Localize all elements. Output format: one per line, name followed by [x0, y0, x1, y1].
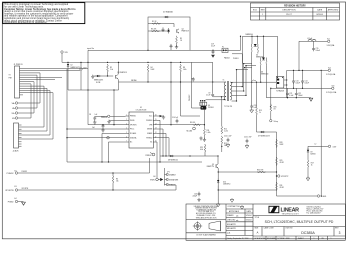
svg-text:REVISION HISTORY: REVISION HISTORY — [284, 5, 306, 7]
svg-text:16: 16 — [155, 115, 157, 117]
svg-text:MBRS140T3: MBRS140T3 — [94, 80, 103, 82]
svg-text:A: A — [257, 231, 259, 235]
svg-text:Fax: (408) 434-0507: Fax: (408) 434-0507 — [307, 212, 321, 214]
svg-text:10: 10 — [155, 141, 157, 143]
svg-text:100uF: 100uF — [316, 50, 321, 52]
svg-text:2.21k: 2.21k — [224, 131, 228, 133]
svg-text:D10: D10 — [223, 182, 226, 184]
svg-text:SHDN: SHDN — [150, 180, 155, 182]
svg-text:CONTRACT NO.: CONTRACT NO. — [228, 205, 241, 208]
svg-text:VA+: VA+ — [12, 102, 15, 105]
svg-text:C21: C21 — [289, 93, 292, 95]
svg-text:DISABLE: DISABLE — [169, 174, 176, 177]
svg-text:Phone: (408) 432-1900: Phone: (408) 432-1900 — [307, 210, 323, 212]
svg-text:DATE: DATE — [317, 9, 323, 12]
svg-text:SCALE NONE: SCALE NONE — [255, 237, 267, 240]
svg-text:VB+: VB+ — [12, 113, 15, 115]
svg-text:1K: 1K — [180, 40, 183, 42]
svg-text:ENG APPR: ENG APPR — [227, 223, 236, 226]
svg-text:3: 3 — [126, 123, 127, 125]
svg-text:Vo3: Vo3 — [332, 85, 335, 87]
svg-text:C15: C15 — [316, 48, 319, 50]
svg-text:THIRD ANGLE PROJECTION: THIRD ANGLE PROJECTION — [196, 216, 217, 219]
svg-text:PRI/SEC: PRI/SEC — [189, 94, 191, 101]
svg-text:VPORTN: VPORTN — [5, 190, 14, 192]
svg-text:C14: C14 — [305, 81, 308, 83]
svg-text:0.1uF: 0.1uF — [289, 95, 293, 97]
svg-text:PILOT: PILOT — [286, 14, 292, 16]
svg-text:5.2V@0.5A: 5.2V@0.5A — [326, 73, 336, 76]
svg-text:E2: E2 — [15, 171, 17, 173]
svg-text:100k: 100k — [183, 69, 187, 71]
svg-text:DESCRIPTION: DESCRIPTION — [283, 10, 297, 12]
svg-text:10k: 10k — [116, 181, 119, 183]
svg-text:input Vin: input Vin — [87, 47, 94, 50]
svg-text:180uF: 180uF — [298, 95, 303, 97]
svg-text:D8 MBRS140: D8 MBRS140 — [168, 160, 178, 162]
svg-text:100uF: 100uF — [296, 83, 301, 85]
svg-text:1: 1 — [314, 238, 315, 240]
svg-text:MBRS340: MBRS340 — [246, 34, 253, 36]
svg-text:VPORTN: VPORTN — [22, 188, 29, 190]
svg-text:PGND2: PGND2 — [7, 173, 15, 175]
svg-text:12: 12 — [155, 132, 157, 134]
svg-text:E4: E4 — [15, 198, 17, 200]
svg-text:R1 2K: R1 2K — [152, 21, 157, 23]
svg-text:eb: eb — [236, 220, 239, 222]
svg-text:1k: 1k — [311, 165, 313, 167]
svg-text:VIN: VIN — [65, 52, 69, 54]
svg-text:TO: TO — [9, 75, 12, 77]
svg-text:C19: C19 — [211, 43, 214, 45]
svg-text:7: 7 — [126, 141, 127, 143]
svg-text:SGND: SGND — [321, 196, 327, 198]
svg-text:0.1uF: 0.1uF — [211, 46, 215, 48]
svg-text:R6: R6 — [116, 179, 118, 181]
svg-text:5: 5 — [126, 132, 127, 134]
svg-text:TITLE: TITLE — [255, 217, 260, 219]
svg-text:PSE: PSE — [9, 78, 12, 80]
svg-text:PA0264: PA0264 — [224, 56, 230, 59]
svg-text:14: 14 — [155, 123, 157, 125]
svg-text:R5: R5 — [180, 38, 182, 40]
svg-text:T1 TDK P8: T1 TDK P8 — [224, 106, 232, 108]
svg-text:C10 1nF: C10 1nF — [172, 117, 178, 119]
svg-text:D7 MBRS140T3: D7 MBRS140T3 — [258, 136, 270, 138]
svg-text:PGND2: PGND2 — [22, 171, 28, 173]
svg-text:DWG NO: DWG NO — [286, 228, 294, 230]
svg-text:D4: D4 — [256, 55, 258, 57]
svg-text:BZX84: BZX84 — [311, 154, 316, 156]
svg-text:R31: R31 — [280, 185, 283, 187]
svg-text:10k: 10k — [224, 145, 227, 147]
svg-text:PWRGD: PWRGD — [101, 117, 108, 119]
svg-text:FMMT619: FMMT619 — [182, 31, 189, 33]
svg-text:SCH, LTC4267DHC, MULTIPLE OUTP: SCH, LTC4267DHC, MULTIPLE OUTPUT PD — [265, 220, 334, 224]
svg-text:NC: NC — [150, 142, 153, 144]
svg-text:0.1uF: 0.1uF — [206, 95, 210, 97]
svg-text:1uF: 1uF — [95, 114, 98, 116]
svg-text:R8: R8 — [183, 67, 185, 69]
svg-text:R11: R11 — [207, 130, 210, 132]
svg-text:3.3V@3A: 3.3V@3A — [327, 44, 336, 47]
svg-text:VPORTP: VPORTP — [281, 176, 289, 178]
svg-text:RCLASS: RCLASS — [130, 132, 136, 135]
svg-text:ENABLE: ENABLE — [169, 184, 175, 187]
svg-text:REV: REV — [335, 228, 339, 230]
svg-text:NLOAD: NLOAD — [187, 130, 193, 133]
svg-text:MBRS340: MBRS340 — [261, 74, 268, 76]
svg-text:PGND: PGND — [130, 120, 135, 122]
svg-text:VCC: VCC — [149, 116, 153, 118]
svg-text:PS2801: PS2801 — [208, 107, 214, 109]
svg-text:L2: L2 — [315, 144, 317, 146]
svg-text:49.9R: 49.9R — [280, 162, 285, 164]
svg-text:JP1: JP1 — [167, 171, 170, 173]
svg-text:R3 24K: R3 24K — [151, 28, 157, 30]
svg-text:UNLESS OTHERWISE SPECIFIED: UNLESS OTHERWISE SPECIFIED — [194, 206, 219, 208]
svg-text:DO NOT SCALE DRAWING: DO NOT SCALE DRAWING — [196, 234, 216, 237]
svg-text:DC385A: DC385A — [301, 231, 315, 235]
svg-text:3: 3 — [339, 231, 341, 235]
svg-text:E6: E6 — [154, 176, 156, 178]
svg-text:MBRS140T3: MBRS140T3 — [71, 67, 80, 69]
svg-text:ECO: ECO — [253, 10, 258, 12]
svg-text:D6: D6 — [261, 72, 263, 74]
svg-text:49.9R: 49.9R — [280, 187, 285, 189]
svg-text:R25: R25 — [200, 147, 203, 149]
svg-text:CMDSH-3: CMDSH-3 — [223, 184, 230, 186]
svg-text:1uF: 1uF — [254, 107, 257, 109]
svg-text:1R: 1R — [274, 109, 277, 111]
svg-text:PWRGD: PWRGD — [130, 116, 137, 118]
svg-text:D9: D9 — [311, 152, 313, 154]
svg-text:ITH/RUN: ITH/RUN — [146, 120, 152, 122]
svg-text:uCap: uCap — [252, 80, 256, 82]
svg-text:1: 1 — [331, 238, 332, 240]
svg-text:Q3: Q3 — [212, 164, 214, 166]
svg-text:C9: C9 — [208, 92, 210, 94]
svg-text:APPROVED: APPROVED — [328, 9, 339, 12]
svg-text:VA-: VA- — [12, 107, 15, 110]
svg-text:R2: R2 — [110, 67, 112, 69]
svg-text:5Vcap: 5Vcap — [274, 121, 279, 123]
svg-text:T2 PA0648: T2 PA0648 — [276, 90, 284, 93]
svg-text:1: 1 — [262, 14, 263, 16]
svg-text:L1 1uH: L1 1uH — [307, 38, 313, 40]
svg-text:D1 SMAJ58A: D1 SMAJ58A — [163, 11, 174, 14]
svg-text:CAGE CODE: CAGE CODE — [264, 227, 275, 230]
svg-text:FILENAME: FILENAME — [267, 237, 276, 240]
svg-text:Vo2: Vo2 — [328, 67, 331, 69]
svg-text:Friday, September 10, 2004: Friday, September 10, 2004 — [228, 237, 249, 240]
svg-text:PWRGD: PWRGD — [146, 137, 153, 139]
svg-text:2: 2 — [126, 119, 127, 121]
svg-text:R28: R28 — [280, 142, 283, 144]
svg-text:6: 6 — [126, 136, 127, 138]
svg-text:R13: R13 — [224, 143, 227, 145]
svg-text:1: 1 — [126, 115, 127, 117]
svg-text:Q2: Q2 — [182, 29, 184, 31]
svg-text:9/10/04: 9/10/04 — [246, 219, 252, 221]
svg-text:DC385A-1.DSN: DC385A-1.DSN — [278, 237, 291, 240]
svg-text:C20: C20 — [254, 105, 257, 107]
svg-text:SL2M: SL2M — [96, 82, 101, 84]
svg-text:10uF: 10uF — [83, 68, 87, 70]
svg-text:11: 11 — [155, 136, 157, 138]
svg-text:OF: OF — [321, 238, 323, 240]
svg-text:R30 75R: R30 75R — [257, 169, 264, 171]
svg-text:VB-: VB- — [12, 118, 15, 120]
svg-text:R27: R27 — [311, 163, 314, 165]
svg-text:LTC4267CGN: LTC4267CGN — [136, 109, 147, 111]
svg-text:3.3V: 3.3V — [333, 147, 337, 149]
svg-text:4: 4 — [126, 128, 127, 130]
svg-text:C22: C22 — [298, 93, 301, 95]
svg-text:U4: U4 — [208, 105, 210, 107]
svg-text:Q.A.: Q.A. — [227, 232, 231, 235]
svg-text:PVCC: PVCC — [130, 129, 135, 131]
svg-text:C24 0.1uF: C24 0.1uF — [224, 136, 231, 138]
svg-text:5.2V@0.15A: 5.2V@0.15A — [326, 91, 337, 94]
svg-text:D2: D2 — [71, 65, 73, 67]
svg-text:R29: R29 — [280, 160, 283, 162]
svg-text:1nF: 1nF — [92, 127, 95, 129]
svg-text:C26: C26 — [194, 194, 197, 196]
svg-text:180R: 180R — [280, 144, 285, 146]
svg-text:E3: E3 — [15, 186, 17, 188]
svg-text:SIGDISA: SIGDISA — [130, 136, 137, 139]
svg-text:VPORTN: VPORTN — [130, 124, 136, 126]
svg-text:PGND1: PGND1 — [233, 58, 239, 60]
svg-text:NC: NC — [130, 142, 133, 144]
svg-text:100R: 100R — [151, 69, 156, 71]
svg-text:SHEET: SHEET — [298, 238, 304, 240]
svg-text:6.8k: 6.8k — [200, 149, 203, 151]
svg-text:F1: F1 — [222, 46, 224, 48]
svg-text:SIZE: SIZE — [255, 228, 260, 230]
svg-text:Applications Engineering for a: Applications Engineering for assistance. — [4, 21, 47, 24]
svg-text:R4: R4 — [151, 67, 153, 69]
svg-text:FB PAD: FB PAD — [131, 79, 137, 82]
svg-text:MFG APPR: MFG APPR — [227, 227, 237, 230]
svg-text:FMMT720: FMMT720 — [207, 166, 214, 168]
svg-text:2.0k: 2.0k — [110, 69, 113, 71]
svg-text:J1 PWR IN: J1 PWR IN — [14, 64, 24, 66]
svg-text:DRAWN: DRAWN — [227, 214, 234, 217]
svg-text:J2 AUX: J2 AUX — [13, 150, 20, 153]
svg-text:100uF: 100uF — [305, 83, 310, 85]
svg-text:13: 13 — [155, 128, 157, 130]
svg-text:R26: R26 — [274, 107, 277, 109]
svg-text:VFB: VFB — [149, 124, 152, 126]
svg-text:C13: C13 — [296, 81, 299, 83]
svg-text:R15: R15 — [259, 110, 262, 112]
svg-text:CHECKED: CHECKED — [227, 219, 236, 221]
svg-text:220pF: 220pF — [192, 196, 197, 198]
svg-text:DATE: DATE — [247, 210, 252, 213]
svg-text:R12: R12 — [224, 129, 227, 131]
svg-text:9/10/04: 9/10/04 — [246, 215, 252, 217]
svg-text:NGATE: NGATE — [147, 132, 152, 135]
svg-text:C8: C8 — [89, 114, 91, 116]
svg-text:REV: REV — [261, 10, 266, 12]
svg-text:1k: 1k — [259, 112, 261, 114]
svg-text:R9 620: R9 620 — [190, 122, 195, 124]
svg-text:Vo1: Vo1 — [327, 39, 330, 41]
svg-text:PGND: PGND — [8, 202, 14, 204]
svg-text:T1: T1 — [223, 79, 225, 81]
svg-text:15: 15 — [155, 119, 157, 121]
svg-text:APPROVALS: APPROVALS — [229, 210, 240, 213]
svg-text:8/13/04: 8/13/04 — [317, 14, 323, 16]
svg-text:C25 4.7uF: C25 4.7uF — [244, 137, 251, 139]
svg-text:TECHNOLOGY: TECHNOLOGY — [282, 213, 300, 215]
svg-text:1.00k: 1.00k — [207, 132, 211, 134]
svg-text:1630 McCarthy Blvd.: 1630 McCarthy Blvd. — [307, 206, 322, 209]
svg-text:SIGNATURE: SIGNATURE — [169, 179, 178, 182]
svg-text:PWRGD: PWRGD — [145, 155, 152, 157]
svg-text:SENSE: SENSE — [147, 129, 152, 131]
